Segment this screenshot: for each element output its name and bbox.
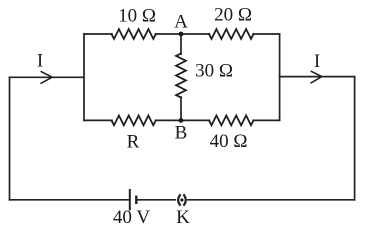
svg-text:I: I [37,51,43,72]
svg-text:20 Ω: 20 Ω [214,5,252,26]
resistor 30 ohm vertical zigzag [176,54,186,98]
wire left feed horizontal [10,76,85,78]
svg-text:A: A [174,12,188,33]
svg-text:30 Ω: 30 Ω [195,61,233,82]
svg-text:10 Ω: 10 Ω [118,6,156,27]
svg-text:K: K [176,207,190,228]
resistor 20 ohm zigzag [209,29,254,39]
wire right feed horizontal [280,76,355,78]
wire left outer vertical [9,77,11,200]
wire middle vertical upper (A to resistor) [180,34,182,54]
resistor R zigzag [112,116,156,126]
wire bottom left segment [10,199,130,201]
current arrow I right [311,71,322,83]
switch K plug dot [180,198,183,201]
node A junction dot [179,32,184,37]
switch K left bracket [178,195,180,205]
wire top-left lead [84,33,112,35]
svg-text:40 Ω: 40 Ω [210,131,248,152]
svg-text:R: R [127,132,140,153]
wire top-right lead [253,33,279,35]
wire right outer vertical [354,77,356,200]
wire bridge left vertical [83,34,85,120]
svg-text:I: I [314,51,320,72]
switch K right bracket [184,195,186,205]
wire middle vertical lower (resistor to B) [180,97,182,120]
battery cell 40 V : long plate [129,190,131,209]
battery cell 40 V : short plate [135,197,137,203]
wire bottom middle lead [156,119,210,121]
wire bridge right vertical [279,34,281,120]
wire bottom-right lead [253,119,279,121]
svg-text:B: B [175,123,188,144]
svg-text:40 V: 40 V [113,207,150,228]
resistor 40 ohm zigzag [209,116,254,126]
resistor 10 ohm zigzag [112,29,156,39]
node B junction dot [179,118,184,123]
wire bottom right segment [188,199,355,201]
wire top middle lead [156,33,210,35]
current arrow I left [41,72,52,84]
wire bottom middle segment [137,199,175,201]
wire bottom-left lead [84,119,112,121]
